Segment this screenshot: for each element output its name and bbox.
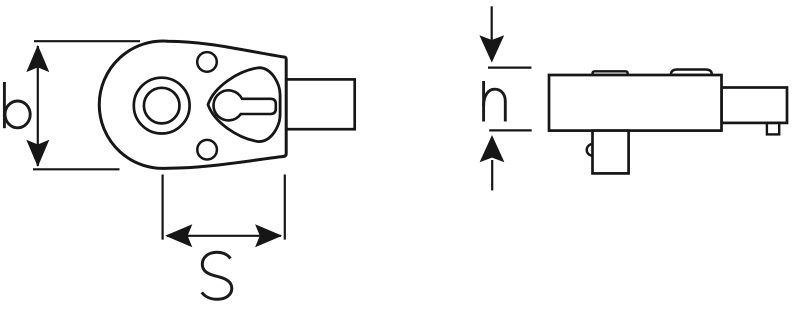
label h bbox=[484, 81, 506, 122]
head outline bbox=[99, 41, 286, 168]
dimension b: arrow shaft bbox=[37, 46, 39, 166]
dimension b: bottom arrowhead bbox=[26, 140, 49, 167]
dimension h: bottom tick bbox=[489, 129, 532, 131]
dimension h: bottom arrowhead (up) bbox=[480, 135, 505, 162]
dimension S: right arrowhead bbox=[255, 224, 282, 247]
bottom small circle bbox=[197, 140, 217, 160]
top small circle bbox=[197, 52, 217, 72]
shank bbox=[722, 88, 788, 123]
dimension b: bottom extension line bbox=[33, 168, 120, 170]
ring outer circle bbox=[134, 78, 190, 134]
dimension S: right extension line bbox=[284, 175, 286, 240]
dimension h: top tick bbox=[488, 66, 531, 68]
dimension h: top arrow shaft bbox=[491, 6, 493, 40]
weld tab left bbox=[593, 71, 628, 75]
weld tab right bbox=[671, 70, 712, 76]
keyhole surround (pick shape) bbox=[208, 68, 280, 142]
detent ball bump bbox=[587, 144, 593, 156]
main body bbox=[549, 75, 722, 131]
label S bbox=[202, 252, 232, 299]
ring inner circle bbox=[144, 88, 180, 124]
label b bbox=[4, 82, 30, 128]
dimension b: top arrowhead bbox=[26, 45, 49, 72]
dimension S: arrow shaft bbox=[167, 235, 281, 237]
dimension S: left arrowhead bbox=[165, 224, 192, 247]
dimension S: left extension line bbox=[162, 175, 164, 240]
square drive tang (right of head) bbox=[286, 79, 355, 129]
keyhole bbox=[214, 90, 276, 120]
dimension h: top arrowhead (down) bbox=[479, 35, 504, 62]
shank end notch bbox=[767, 123, 779, 134]
dimension h: bottom arrow shaft bbox=[491, 160, 493, 190]
square drive (side) bbox=[593, 131, 629, 174]
dimension b: top extension line bbox=[34, 40, 140, 42]
